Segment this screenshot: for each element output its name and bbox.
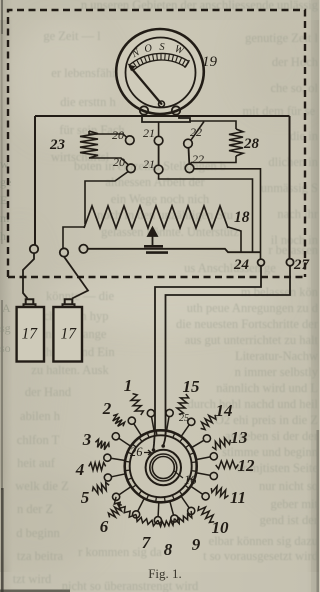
svg-text:geber mit: geber mit (270, 497, 318, 511)
svg-text:22: 22 (192, 152, 204, 166)
wire 25 to dial right (166, 266, 291, 428)
svg-text:12: 12 (238, 456, 256, 475)
battery cell 17 #2 (53, 307, 82, 362)
svg-text:23: 23 (49, 137, 66, 153)
svg-text:ge: ge (0, 175, 11, 189)
svg-text:uth peue Anregungen zu d: uth peue Anregungen zu d (187, 301, 319, 315)
svg-text:tzt wird: tzt wird (13, 572, 52, 586)
svg-text:tza beitra: tza beitra (17, 549, 64, 563)
svg-text:nännlich wird und L: nännlich wird und L (216, 381, 318, 395)
wire left vertical (34, 116, 36, 245)
svg-text:d beginn: d beginn (16, 526, 60, 540)
svg-text:genutige Zeit l: genutige Zeit l (245, 31, 318, 45)
dial studs and spokes (152, 417, 155, 431)
svg-text:6: 6 (100, 517, 109, 536)
wire 22a to top rail (191, 122, 204, 141)
svg-text:der Hand: der Hand (25, 385, 72, 399)
svg-text:14: 14 (216, 401, 233, 420)
svg-text:ein Wege noch nich: ein Wege noch nich (111, 192, 210, 206)
wire 24 to dial left (155, 266, 261, 430)
svg-text:n immer selbstly: n immer selbstly (235, 365, 319, 379)
svg-text:nur nicht so: nur nicht so (259, 479, 318, 493)
dial rheostat body (ring + hub 16) (125, 430, 197, 502)
svg-text:A: A (2, 301, 11, 315)
contact 20a (126, 136, 135, 145)
svg-text:9: 9 (192, 535, 201, 554)
svg-text:1: 1 (124, 376, 133, 395)
svg-text:könnte — die: könnte — die (46, 289, 114, 303)
svg-text:chlfon T: chlfon T (17, 433, 60, 447)
svg-text:che so, ol: che so, ol (270, 81, 318, 95)
svg-text:noch in den unzähligen Stu: noch in den unzähligen Stu (97, 208, 234, 222)
wire R23 top to contact 20a (89, 131, 127, 137)
dashed panel border (8, 10, 305, 277)
svg-text:21: 21 (143, 126, 155, 140)
contact 21a (154, 136, 163, 145)
svg-text:27: 27 (293, 257, 310, 273)
svg-text:13: 13 (231, 428, 249, 447)
switch blade 22 (188, 148, 191, 164)
svg-text:Literatur-Nachw: Literatur-Nachw (235, 349, 318, 363)
svg-text:nach ihr: nach ihr (277, 207, 318, 221)
svg-text:21: 21 (143, 157, 155, 171)
wire meter base to R28 top (190, 121, 236, 129)
svg-text:17: 17 (61, 326, 78, 343)
wire R18 left end (63, 227, 84, 249)
resistor R28 (229, 129, 243, 156)
svg-text:20: 20 (113, 155, 125, 169)
svg-text:8: 8 (164, 540, 173, 559)
wire 21a to meter base (158, 122, 160, 136)
contact 22b (185, 164, 194, 173)
dial resistor elements (zigzags) (131, 394, 144, 415)
svg-text:4: 4 (75, 460, 85, 479)
svg-text:heit auf: heit auf (17, 456, 56, 470)
svg-text:n der Z: n der Z (17, 502, 53, 516)
wire top horizontal (35, 115, 290, 117)
wire R18 right end (228, 227, 241, 252)
svg-text:26: 26 (130, 445, 143, 459)
contact 21b (154, 165, 163, 174)
svg-text:2: 2 (102, 399, 112, 418)
svg-text:28: 28 (243, 136, 260, 152)
svg-text:10: 10 (212, 518, 230, 537)
bottom rail wire (88, 249, 261, 252)
svg-text:17: 17 (22, 326, 39, 343)
terminal T2 (60, 248, 68, 256)
wire T2 to battery 2 (64, 257, 88, 299)
terminal 25 circle (286, 259, 293, 266)
meter base bracket (142, 116, 190, 122)
wiper arrow of R18 (148, 228, 157, 247)
svg-text:t so vorausgesetzt wird: t so vorausgesetzt wird (203, 549, 319, 563)
svg-text:5: 5 (81, 488, 90, 507)
svg-text:gend ist der: gend ist der (260, 513, 319, 527)
svg-text:3: 3 (82, 430, 92, 449)
svg-text:18: 18 (234, 209, 250, 226)
dashed panel bottom line (8, 276, 305, 278)
wire 21b down-right (159, 174, 253, 253)
svg-text:dlichen in: dlichen in (268, 155, 318, 169)
dial position numbers 1-15 (75, 376, 255, 559)
svg-text:ge Zeit — l: ge Zeit — l (43, 29, 101, 43)
wiper wire contacts in hub (154, 430, 156, 449)
svg-text:so: so (0, 341, 11, 355)
contact 20b (127, 164, 136, 173)
svg-text:25: 25 (179, 413, 189, 424)
resistor R23 (80, 131, 98, 158)
svg-text:der Hoch: der Hoch (272, 55, 319, 69)
svg-text:15: 15 (183, 377, 201, 396)
svg-text:zu halten. Ausk: zu halten. Ausk (31, 363, 109, 377)
terminal T3 (79, 245, 87, 253)
wire R23 bottom to contact 20b (89, 158, 128, 165)
wire T1 to battery 1 (23, 253, 34, 298)
svg-text:die neuesten Fortschritte d: die neuesten Fortschritte der (176, 317, 319, 331)
wire 20b to R18 left tap (85, 172, 128, 225)
svg-text:abilen h: abilen h (20, 409, 61, 423)
svg-text:sg: sg (0, 321, 11, 335)
svg-text:E: E (0, 193, 7, 207)
battery cell 17 #1 (17, 307, 44, 362)
svg-text:gelassen könnte. Unterstütz: gelassen könnte. Unterstütz (101, 225, 239, 239)
svg-text:Fig. 1.: Fig. 1. (148, 566, 182, 581)
wiper ground bars (144, 246, 168, 252)
svg-text:S: S (159, 42, 165, 53)
svg-text:r belassen: r belassen (268, 243, 318, 257)
wire right vertical (289, 116, 291, 259)
wire R28 bottom to 22b (190, 156, 236, 164)
terminal 24 circle (258, 259, 265, 266)
svg-text:16: 16 (184, 473, 197, 487)
svg-text:aus gut unterrichtet zu ha: aus gut unterrichtet zu halt (185, 333, 319, 347)
svg-text:h: h (0, 229, 6, 243)
svg-text:20: 20 (112, 128, 124, 142)
svg-text:11: 11 (230, 488, 246, 507)
terminal T1 (30, 245, 38, 253)
svg-text:die ersttn h: die ersttn h (60, 95, 116, 109)
rheostat R18 winding (84, 206, 228, 228)
contact 22a (184, 139, 193, 148)
galvanometer U19 (compass meter) (116, 29, 204, 114)
svg-text:welk die Z: welk die Z (15, 479, 68, 493)
wire 22b down-right (194, 169, 261, 259)
svg-text:us Anschlüssen ge: us Anschlüssen ge (184, 261, 276, 275)
svg-text:durch hohl nachd und heil: durch hohl nachd und heil (187, 397, 318, 411)
switch blade 21 (158, 145, 160, 165)
svg-text:24: 24 (233, 257, 250, 273)
svg-text:19: 19 (202, 54, 218, 70)
